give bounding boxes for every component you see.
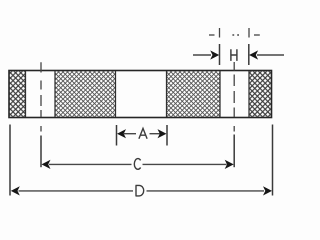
dimension H extension line left (219, 44, 221, 65)
dimension C label (134, 159, 140, 170)
dimension H left leader line (193, 54, 211, 56)
dimension A label (139, 128, 147, 138)
dimension H extension line right (248, 44, 250, 65)
dimension H left leader arrowhead (210, 50, 219, 59)
dimension D extension line right (at flange OD right) (272, 125, 274, 196)
horizontal dash-dot centerline across hole top: center dots (232, 34, 239, 36)
horizontal dash-dot centerline across hole top: right dash (254, 34, 260, 36)
dimension A extension line left (116, 125, 118, 146)
dimension H label (231, 49, 237, 61)
dimension H right leader line (257, 54, 284, 56)
dimension C extension line right (at right bolt hole center) (233, 135, 235, 168)
dimension H right leader arrowhead (249, 50, 258, 59)
flange body hatched section between bore and right bolt hole (167, 71, 221, 117)
bore walls (116, 71, 167, 117)
dimension C right arrowhead (225, 160, 234, 169)
dimension A line left segment (124, 133, 136, 135)
dimension C extension line left (at left bolt hole center) (40, 136, 42, 168)
flange body hatched section between left bolt hole and bore (55, 71, 116, 117)
dimension D right arrowhead (263, 186, 272, 195)
dimension D line left segment (19, 190, 134, 192)
right bolt hole walls (220, 71, 249, 117)
centerline of left bolt hole (dash-dot vertical at x=41) (40, 62, 42, 131)
dimension D label (136, 185, 144, 196)
dimension D extension line left (at flange OD left) (9, 125, 11, 196)
centerline of right bolt hole (dash-dot vertical at x=234.2) (233, 62, 235, 132)
flange body hatched section left outer band (10, 71, 26, 117)
flange cross-section outline (9, 71, 272, 118)
left bolt hole walls (26, 71, 56, 117)
dashed extension of right hole left wall above flange (219, 28, 221, 38)
horizontal dash-dot centerline across hole top: left dash (209, 34, 215, 36)
dimension C left arrowhead (42, 160, 51, 169)
dimension A extension line right (166, 125, 168, 146)
dimension D line right segment (147, 190, 265, 192)
dimension C line left segment (49, 163, 132, 165)
dimension C line right segment (143, 163, 227, 165)
dimension D left arrowhead (11, 186, 20, 195)
dimension A right arrowhead (158, 129, 167, 138)
dashed extension of right hole right wall above flange (248, 28, 250, 38)
flange body hatched section right outer band (249, 71, 271, 117)
dimension A left arrowhead (117, 129, 126, 138)
dimension A line right segment (150, 133, 161, 135)
